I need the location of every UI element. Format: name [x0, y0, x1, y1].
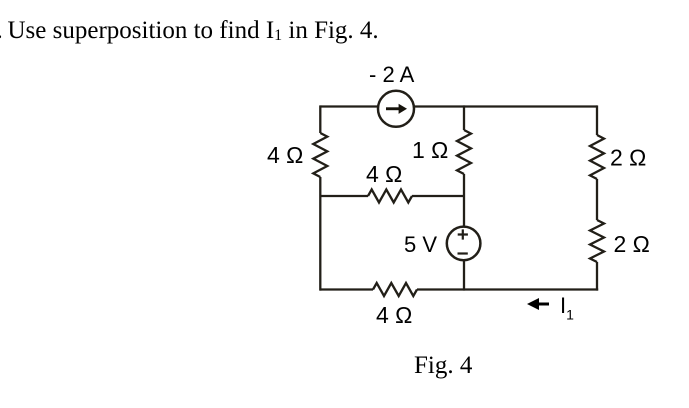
resistor R 4ohm middle — [368, 190, 412, 203]
svg-text:- 2 A: - 2 A — [369, 62, 415, 87]
wire middle horizontal right part — [412, 195, 464, 197]
svg-text:4 Ω: 4 Ω — [376, 302, 412, 328]
svg-text:2 Ω: 2 Ω — [610, 145, 646, 171]
voltage source minus sign — [458, 252, 468, 254]
resistor R 2ohm bottom — [590, 220, 604, 262]
wire middle horizontal left part — [320, 195, 368, 197]
resistor R 1ohm — [457, 130, 471, 174]
resistor R 4ohm bottom — [373, 283, 417, 296]
voltage source plus sign — [458, 229, 468, 239]
current source circle — [378, 91, 414, 127]
svg-text:I1: I1 — [560, 293, 574, 323]
wire left vertical lower — [319, 177, 321, 291]
wire right vertical lower — [596, 262, 598, 291]
wire top right segment — [414, 105, 597, 107]
wire middle vertical bottom — [463, 260, 465, 290]
wire middle vertical mid — [463, 174, 465, 226]
wire right vertical middle — [596, 179, 598, 220]
caption Fig. 4 — [414, 353, 472, 378]
svg-text:2 Ω: 2 Ω — [614, 231, 650, 257]
resistor R 4ohm left — [313, 133, 327, 177]
voltage source 5V circle — [447, 227, 481, 261]
title text — [0, 18, 3, 43]
svg-text:4 Ω: 4 Ω — [366, 161, 402, 187]
wire bottom right part — [417, 288, 598, 290]
svg-text:4 Ω: 4 Ω — [267, 142, 303, 168]
resistor R 2ohm top — [590, 135, 604, 179]
current source arrow — [386, 104, 407, 114]
svg-text:1 Ω: 1 Ω — [412, 137, 448, 163]
wire middle vertical top — [463, 105, 465, 130]
wire left vertical upper — [319, 105, 321, 133]
wire bottom left part — [320, 288, 373, 290]
current arrow I1 — [527, 298, 549, 310]
wire right vertical upper — [596, 105, 598, 135]
svg-text:5 V: 5 V — [404, 232, 437, 257]
wire top left segment — [320, 105, 378, 107]
